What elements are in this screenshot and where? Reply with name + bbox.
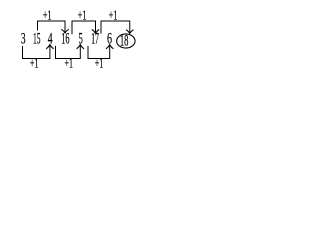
- top arrow 16 to 17: [72, 21, 99, 34]
- svg-text:+1: +1: [109, 9, 118, 24]
- svg-text:+1: +1: [65, 57, 74, 72]
- top arrow 15 to 16: [38, 21, 69, 33]
- bottom arrow 5 to 6: [88, 45, 113, 59]
- svg-text:+1: +1: [30, 57, 39, 72]
- bottom arrow 4 to 5: [56, 45, 85, 59]
- svg-text:+1: +1: [95, 57, 104, 72]
- svg-text:+1: +1: [78, 9, 87, 24]
- svg-text:+1: +1: [43, 9, 52, 24]
- svg-text:3: 3: [21, 31, 26, 48]
- top arrow 17 to 18: [101, 21, 133, 34]
- circle around 18: [117, 34, 135, 48]
- background: [0, 0, 181, 72]
- bottom arrow 3 to 4: [23, 45, 54, 59]
- svg-text:15: 15: [33, 31, 41, 48]
